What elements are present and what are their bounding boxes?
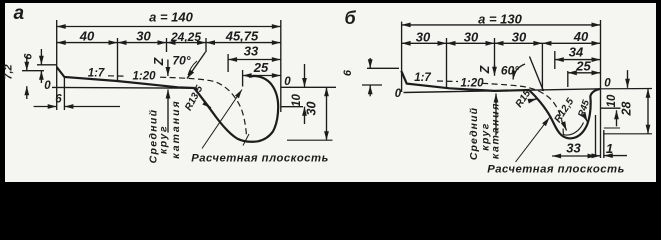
svg-text:0: 0	[44, 80, 51, 92]
svg-text:1: 1	[606, 141, 613, 156]
svg-text:катания: катания	[490, 102, 502, 159]
svg-text:24,25: 24,25	[170, 30, 201, 44]
svg-text:0: 0	[284, 76, 291, 88]
svg-text:30: 30	[464, 30, 479, 45]
svg-text:30: 30	[416, 30, 431, 45]
svg-text:0: 0	[604, 78, 611, 90]
svg-text:катания: катания	[170, 99, 182, 158]
svg-text:а: а	[14, 3, 25, 24]
svg-text:30: 30	[136, 29, 151, 44]
svg-text:6: 6	[342, 69, 354, 76]
svg-text:6: 6	[23, 53, 35, 60]
svg-text:1:7: 1:7	[88, 68, 105, 80]
svg-text:34: 34	[569, 45, 584, 60]
svg-text:Расчетная плоскость: Расчетная плоскость	[191, 153, 329, 165]
svg-text:70°: 70°	[172, 54, 190, 68]
svg-text:1:20: 1:20	[132, 71, 156, 83]
svg-text:60°: 60°	[501, 64, 519, 78]
svg-text:10: 10	[291, 94, 303, 107]
svg-text:a = 130: a = 130	[478, 12, 523, 27]
svg-text:25: 25	[575, 59, 591, 74]
svg-text:1:7: 1:7	[414, 72, 431, 84]
svg-text:30: 30	[512, 30, 527, 45]
svg-text:Средний: Средний	[468, 107, 480, 160]
svg-text:33: 33	[244, 44, 259, 59]
svg-text:a = 140: a = 140	[149, 10, 194, 25]
svg-text:б: б	[345, 8, 357, 28]
svg-text:Z: Z	[478, 64, 492, 74]
svg-text:7,2: 7,2	[3, 64, 15, 79]
svg-text:28: 28	[620, 102, 634, 117]
svg-text:45,75: 45,75	[225, 29, 259, 44]
svg-text:10: 10	[606, 94, 618, 107]
svg-text:Z: Z	[152, 56, 166, 66]
svg-text:25: 25	[253, 60, 269, 75]
svg-text:40: 40	[79, 29, 95, 44]
svg-text:33: 33	[566, 141, 581, 156]
svg-text:30: 30	[305, 102, 319, 116]
svg-text:6: 6	[55, 94, 62, 106]
svg-text:1:20: 1:20	[460, 78, 484, 90]
svg-text:0: 0	[395, 88, 402, 100]
svg-text:Расчетная плоскость: Расчетная плоскость	[487, 164, 625, 176]
svg-text:круг: круг	[158, 125, 170, 154]
svg-text:40: 40	[573, 29, 589, 44]
